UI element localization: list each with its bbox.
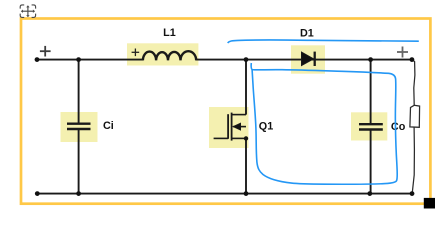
highlight Co [351, 112, 387, 140]
wire bottom rail [37, 193, 412, 195]
node: output - terminal [410, 191, 415, 196]
annotation: blue line over D1 [228, 40, 419, 43]
node: Q1 drain / D1 anode [244, 57, 249, 62]
node: output + terminal [410, 57, 415, 62]
wire top rail left [37, 59, 143, 61]
load resistor (output) [410, 60, 420, 194]
highlight L1 [127, 43, 198, 65]
svg-text:Q1: Q1 [259, 120, 273, 132]
move handle icon [20, 5, 35, 18]
plus: input polarity [40, 46, 51, 57]
svg-text:D1: D1 [300, 27, 314, 39]
node: Ci bottom [76, 191, 81, 196]
node: Ci top [76, 57, 81, 62]
capacitor Co [359, 60, 383, 194]
diode D1 [302, 52, 315, 66]
svg-text:Co: Co [391, 121, 406, 133]
transistor Q1 (n-mosfet) [214, 60, 249, 194]
node: Co top [368, 57, 373, 62]
selection frame (orange) [21, 19, 430, 204]
annotation: blue loop around Q1/D1/Co mesh [251, 63, 397, 184]
capacitor Ci [67, 60, 91, 194]
node: Co bottom [367, 191, 372, 196]
node: bottom-left terminal [35, 191, 40, 196]
highlight Ci [61, 112, 98, 142]
svg-text:Ci: Ci [103, 120, 114, 132]
plus: output polarity [397, 47, 408, 58]
resize handle (black square) [424, 198, 435, 209]
highlight D1 [291, 45, 325, 73]
highlight Q1 [209, 107, 249, 148]
node: top-left terminal [35, 57, 40, 62]
svg-text:L1: L1 [163, 27, 176, 39]
wire top rail right [196, 59, 412, 61]
node: Q1 source bottom [244, 191, 249, 196]
plus: inductor polarity [132, 49, 140, 57]
inductor L1 [143, 51, 196, 60]
